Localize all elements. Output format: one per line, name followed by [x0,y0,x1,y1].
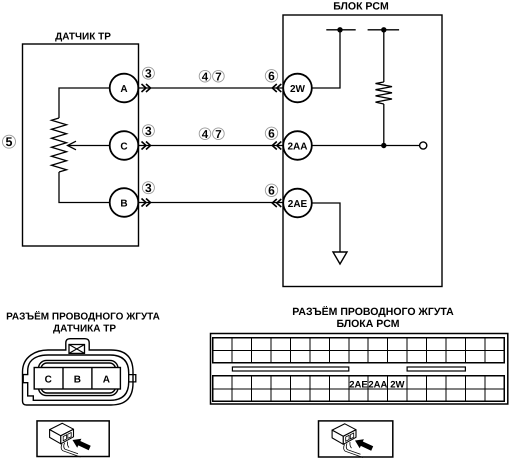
potentiometer R (TP sensor) [52,118,67,172]
box: PCM [283,15,442,287]
svg-text:C: C [120,141,127,152]
arrow icon 1 [73,439,91,451]
svg-text:B: B [74,374,81,385]
wire: rail1 down to 2W [312,30,340,88]
svg-text:БЛОКА PCM: БЛОКА PCM [336,318,399,330]
chevrons left row 2W [272,84,281,92]
ground symbol [333,252,347,264]
svg-text:4: 4 [202,129,209,141]
terminal 2AA [283,131,312,160]
circled 3 row C [142,124,154,138]
seal outer rounded rect [39,360,119,395]
circled 6 row 2AA [265,127,277,141]
svg-text:3: 3 [145,124,152,138]
chevrons right row A [142,84,151,92]
svg-text:A: A [120,84,127,95]
TP connector drawing [23,339,136,405]
power rail 2 [368,29,400,31]
terminal 2AE [283,189,312,218]
svg-text:C: C [45,374,52,385]
PCM connector top grid [213,338,505,363]
wire: 2AE to ground [312,203,340,252]
chevrons left row 2AA [272,142,281,150]
svg-text:РАЗЪЁМ ПРОВОДНОГО ЖГУТА: РАЗЪЁМ ПРОВОДНОГО ЖГУТА [292,306,454,318]
connector inner outline [23,355,129,400]
wire: A to 2W [139,87,284,89]
circled 3 row A [142,67,154,81]
wire: B to 2AE [139,202,284,204]
junction dot [381,143,386,148]
svg-text:2AA: 2AA [287,141,307,152]
right notch [129,375,136,382]
PCM connector bottom grid [213,376,505,401]
latch cross box [69,345,85,354]
svg-text:ДАТЧИК TP: ДАТЧИК TP [55,32,111,43]
svg-text:A: A [103,374,110,385]
svg-text:6: 6 [268,184,275,198]
svg-text:2W: 2W [290,84,306,95]
circled 4 7 row C [199,128,224,141]
wire: resistor down to 2AA wire [383,104,385,146]
icon box 2 [319,421,393,457]
circled 6 row 2AE [265,184,277,198]
wire: potentiometer bottom to B [59,172,110,203]
wire: A to potentiometer top [59,88,110,118]
connector icon 1 [50,423,91,457]
icon box 1 [37,421,109,457]
circled 4 7 row A [199,70,224,83]
wire: rail2 down to resistor [383,30,385,82]
svg-text:7: 7 [215,72,221,84]
svg-text:4: 4 [202,72,209,84]
power rail 1 [326,29,355,31]
svg-text:2W: 2W [390,380,404,391]
terminal 2W [283,74,312,103]
chevrons left row 2AE [272,199,281,207]
connector outer outline [23,339,134,405]
svg-text:B: B [120,198,127,209]
svg-text:6: 6 [268,127,275,141]
terminal C [110,131,139,160]
svg-text:2AE: 2AE [349,380,367,391]
circled 5 [3,135,16,149]
arrow icon 2 [355,439,373,451]
svg-text:ДАТЧИКА TP: ДАТЧИКА TP [53,323,116,334]
svg-text:3: 3 [145,67,152,81]
svg-text:2AE: 2AE [288,199,308,210]
circled 3 row B [142,181,154,195]
circled 6 row 2W [265,69,277,83]
PCM connector outer box [211,334,508,405]
svg-text:6: 6 [268,69,275,83]
resistor (pull-up in PCM) [376,82,393,104]
terminal A [110,74,139,103]
chevrons right row C [142,142,151,150]
chevrons right row B [142,199,151,207]
wiper arrow from C [69,145,111,147]
slot 2 [407,367,465,371]
svg-text:7: 7 [215,129,221,141]
svg-text:РАЗЪЁМ ПРОВОДНОГО ЖГУТА: РАЗЪЁМ ПРОВОДНОГО ЖГУТА [6,310,160,322]
svg-text:2AA: 2AA [368,380,387,391]
open terminal circle [420,142,427,149]
wire: C to 2AA [139,145,284,147]
seal inner rounded rect [41,363,116,393]
svg-text:3: 3 [145,181,152,195]
terminal B [110,188,139,217]
svg-text:БЛОК PCM: БЛОК PCM [333,1,389,13]
terminal strip C B A [34,368,120,390]
svg-text:5: 5 [6,135,13,149]
box: TP sensor [23,44,139,246]
slot 1 [232,367,348,371]
wire: 2AA to output terminal [312,145,420,147]
connector icon 2 [332,424,373,458]
